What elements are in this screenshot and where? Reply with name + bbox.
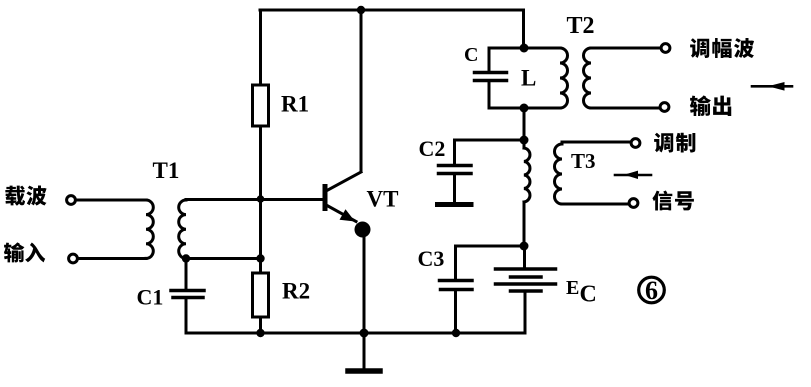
wire T1 bottom to R2 node <box>186 257 261 260</box>
wire C2 top lead <box>455 140 525 164</box>
label 调幅波 <box>690 38 754 58</box>
terminal AM output bottom <box>660 103 669 112</box>
wire R2 top lead <box>259 259 262 274</box>
wire R2 bottom lead <box>259 317 262 333</box>
label 信号 <box>652 190 694 210</box>
resistor R1 <box>253 85 269 126</box>
wire base bias rail <box>259 199 262 259</box>
label 调制 <box>654 133 695 153</box>
terminal modulation bottom <box>629 199 638 208</box>
wire tank to C2 node <box>523 108 526 140</box>
terminal modulation top <box>631 139 640 148</box>
wire collector lead <box>360 10 363 172</box>
wire C1 bottom lead <box>185 299 188 333</box>
arrow AM output direction <box>752 82 792 91</box>
svg-text:VT: VT <box>367 187 399 212</box>
node tank bottom junction <box>520 104 529 113</box>
wire transistor base <box>186 198 323 201</box>
wire C3 top lead <box>456 246 525 279</box>
wire R1 bottom lead <box>259 126 262 199</box>
transformer T3 secondary winding <box>555 144 563 204</box>
svg-text:C2: C2 <box>419 136 446 161</box>
node base / R1 junction <box>257 195 265 203</box>
node C3 / rail junction <box>452 329 460 337</box>
svg-text:T2: T2 <box>567 13 595 39</box>
node top rail / collector junction <box>357 6 365 14</box>
label 输出 <box>690 95 731 116</box>
terminal AM output top <box>661 44 670 53</box>
transistor VT <box>325 172 371 238</box>
svg-text:C3: C3 <box>418 246 445 271</box>
svg-text:T1: T1 <box>153 158 180 183</box>
terminal carrier input top <box>67 196 76 205</box>
wire C3 bottom lead <box>454 291 457 333</box>
wire T2 secondary top lead <box>591 47 660 50</box>
node tank top junction <box>520 44 529 53</box>
svg-text:T3: T3 <box>571 149 596 173</box>
wire R1 top lead <box>259 10 262 85</box>
svg-text:E: E <box>566 277 579 299</box>
svg-text:C: C <box>464 44 478 66</box>
svg-text:R2: R2 <box>282 279 310 304</box>
wire T3 secondary top lead <box>562 142 630 144</box>
node C2 junction <box>520 136 529 145</box>
wire T2 secondary bottom lead <box>591 107 659 110</box>
wire emitter lead <box>363 231 366 333</box>
label 载波 <box>5 186 46 206</box>
wire C1 top lead <box>185 259 188 290</box>
capacitor C1 <box>171 291 204 298</box>
wire emitter ground rail <box>186 332 525 335</box>
node R2 top junction <box>256 254 264 262</box>
wire tank top <box>489 47 560 50</box>
wire tank bottom <box>489 107 560 110</box>
wire carrier input bottom lead <box>79 257 147 260</box>
node R2 / ground rail junction <box>256 329 264 337</box>
wire battery bottom lead <box>524 293 527 334</box>
svg-text:L: L <box>521 66 536 91</box>
wire T3 secondary bottom lead <box>562 203 628 206</box>
svg-text:C1: C1 <box>137 285 164 310</box>
node emitter / rail junction <box>360 329 369 338</box>
svg-text:6: 6 <box>645 276 658 305</box>
capacitor C3 <box>440 281 473 290</box>
label 输入 <box>4 242 45 262</box>
svg-text:C: C <box>580 282 597 308</box>
node T1 secondary bottom junction <box>182 254 190 262</box>
terminal carrier input bottom <box>69 254 78 263</box>
capacitor C2 <box>438 166 472 205</box>
transformer T2 secondary winding <box>584 48 592 108</box>
wire battery top lead <box>523 246 526 268</box>
capacitor C <box>475 48 507 108</box>
figure number 6 circle <box>639 277 665 303</box>
node battery / C3 junction <box>520 242 529 251</box>
resistor R2 <box>253 273 269 317</box>
transformer T3 primary winding <box>524 140 530 246</box>
inductor L (T2 primary) <box>560 48 568 108</box>
arrow modulation input direction <box>615 171 651 179</box>
transformer T1 secondary winding <box>179 200 186 258</box>
battery EC <box>496 269 556 291</box>
transformer T1 primary winding <box>146 200 153 258</box>
svg-text:R1: R1 <box>281 92 309 117</box>
ground <box>348 333 380 371</box>
wire top supply rail <box>260 10 524 48</box>
wire carrier input top lead <box>77 199 147 202</box>
